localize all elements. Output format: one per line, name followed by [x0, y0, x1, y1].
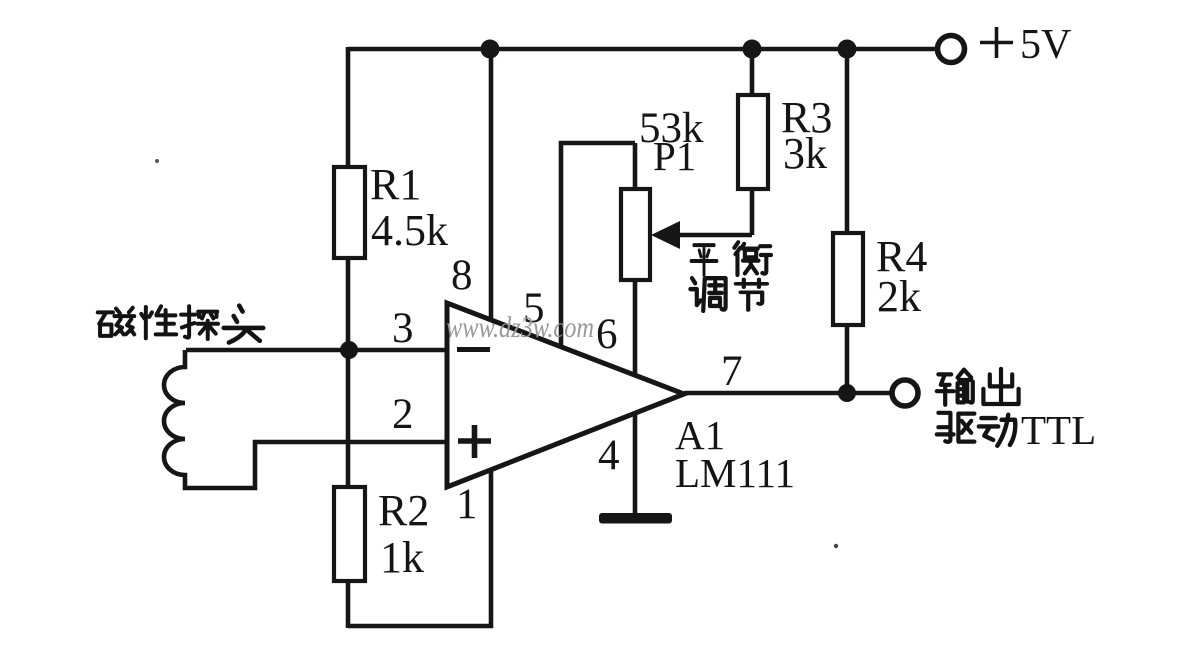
terminal +5V	[938, 36, 965, 63]
wire R4 column	[845, 49, 850, 393]
label +5V	[980, 27, 1013, 58]
svg-text:3: 3	[392, 305, 414, 352]
op-amp A1 triangle	[447, 303, 684, 487]
wire bottom return	[348, 624, 493, 629]
wire output pin7	[684, 391, 892, 396]
label 头	[224, 306, 264, 343]
svg-text:1: 1	[456, 481, 478, 528]
svg-text:7: 7	[721, 348, 743, 395]
svg-text:TTL: TTL	[1021, 407, 1096, 453]
svg-text:5V: 5V	[1020, 22, 1071, 68]
ground	[599, 513, 672, 524]
wire R3 column	[750, 49, 755, 235]
resistor R1	[334, 167, 365, 258]
svg-text:4: 4	[598, 432, 620, 479]
svg-text:1k: 1k	[380, 533, 424, 582]
node junction top rail at R4	[838, 40, 857, 59]
wire pin8/pin1 vertical	[489, 49, 494, 628]
wire top +5V rail	[348, 47, 937, 52]
label 平	[691, 245, 717, 275]
label 输 (output)	[937, 370, 973, 405]
label 磁 (magnetic)	[98, 308, 134, 336]
svg-text:8: 8	[451, 252, 473, 299]
label 调	[690, 278, 725, 311]
resistor R2	[334, 487, 365, 581]
potentiometer P1 wiper arrow	[651, 221, 680, 249]
wire P1 column / pin6 / pin4 to ground	[633, 143, 638, 515]
op-amp plus input symbol	[458, 425, 491, 458]
node junction top rail at R3	[743, 40, 762, 59]
svg-text:2k: 2k	[877, 272, 921, 321]
terminal output	[892, 380, 918, 406]
svg-text:R1: R1	[370, 160, 421, 209]
scan speck	[155, 159, 159, 163]
wire pin5 loop to P1 top	[561, 143, 635, 347]
svg-text:P1: P1	[653, 133, 696, 179]
label 驱 (drive)	[937, 413, 975, 442]
resistor R4	[833, 233, 863, 325]
scan speck	[834, 544, 838, 548]
node junction pin3 input	[340, 341, 358, 359]
inductor coil (magnetic probe)	[164, 350, 449, 488]
wire R1/R2 column	[346, 47, 351, 628]
label 衡	[734, 242, 771, 275]
svg-text:R2: R2	[378, 486, 429, 535]
svg-text:3k: 3k	[783, 129, 827, 178]
svg-text:6: 6	[596, 311, 618, 358]
wire P1 wiper to R3	[674, 233, 752, 238]
svg-text:2: 2	[392, 391, 414, 438]
wire pin3 (inverting input)	[186, 348, 449, 353]
label 探	[181, 306, 218, 339]
svg-text:4.5k: 4.5k	[371, 206, 448, 255]
node junction top rail at pin8	[481, 40, 500, 59]
op-amp minus input symbol	[457, 347, 490, 352]
label 节	[736, 279, 767, 310]
node junction output at R4	[838, 384, 856, 402]
label 性	[141, 306, 176, 338]
svg-text:www.dz3w.com: www.dz3w.com	[446, 311, 594, 344]
svg-text:LM111: LM111	[675, 450, 795, 496]
potentiometer P1 body	[621, 189, 650, 280]
resistor R3	[738, 95, 768, 189]
label 动	[979, 415, 1015, 446]
label 出	[983, 369, 1018, 404]
